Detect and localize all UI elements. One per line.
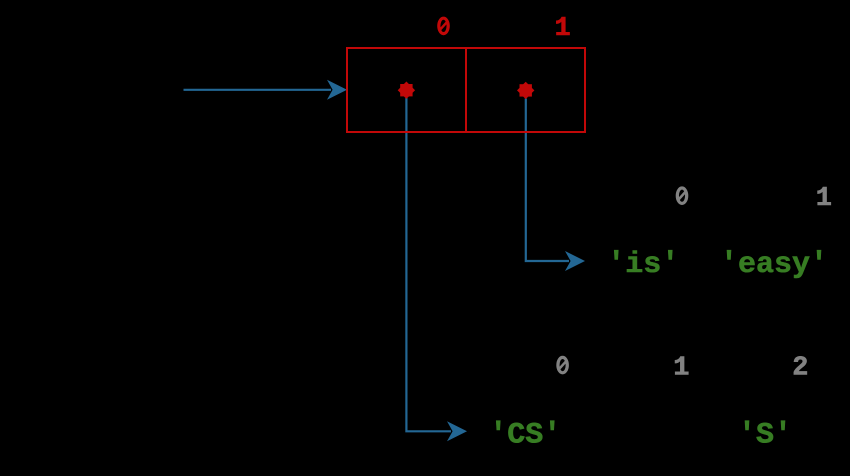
svg-text:1: 1 (816, 184, 832, 214)
svg-text:'is': 'is' (607, 248, 679, 282)
svg-text:'S': 'S' (738, 419, 792, 453)
svg-text:'CS': 'CS' (489, 419, 561, 453)
svg-text:2: 2 (792, 353, 808, 383)
svg-text:'easy': 'easy' (720, 248, 828, 282)
svg-text:1: 1 (554, 14, 570, 44)
svg-text:1: 1 (673, 353, 689, 383)
